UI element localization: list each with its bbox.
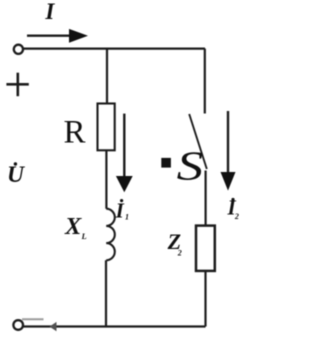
svg-text:I: I (44, 0, 55, 24)
wire middle branch upper lead (106, 49, 108, 104)
current arrow I2 (221, 111, 236, 191)
svg-text:R: R (64, 115, 86, 151)
small return arrowhead on bottom wire (50, 322, 57, 331)
svg-text:I: I (115, 199, 125, 223)
bullet square dot (161, 158, 171, 168)
plus sign (6, 73, 28, 97)
terminal top-left (14, 45, 23, 54)
wire switch lower lead (205, 171, 207, 226)
current arrow I (top) (27, 29, 88, 43)
svg-text:S: S (177, 144, 204, 189)
wire top horizontal (24, 47, 206, 49)
label S (177, 144, 204, 189)
svg-text:X: X (64, 213, 82, 240)
svg-text:2: 2 (177, 248, 182, 257)
resistor R body (98, 104, 115, 151)
wire between R and inductor (105, 150, 107, 208)
impedance Z2 body (196, 226, 215, 271)
wire right branch upper lead (204, 49, 206, 114)
svg-text:1: 1 (125, 212, 129, 221)
wire right branch lower lead (204, 271, 206, 327)
inductor XL coil (106, 209, 115, 261)
switch S blade (189, 114, 207, 169)
current arrow I1 (116, 114, 133, 193)
wire bottom horizontal (24, 325, 206, 327)
svg-text:2: 2 (234, 212, 239, 221)
svg-text:U: U (7, 162, 25, 188)
gray dash near bottom terminal (22, 318, 44, 320)
svg-text:L: L (81, 231, 87, 241)
wire middle branch lower lead (105, 260, 107, 326)
terminal bottom-left (13, 320, 23, 330)
